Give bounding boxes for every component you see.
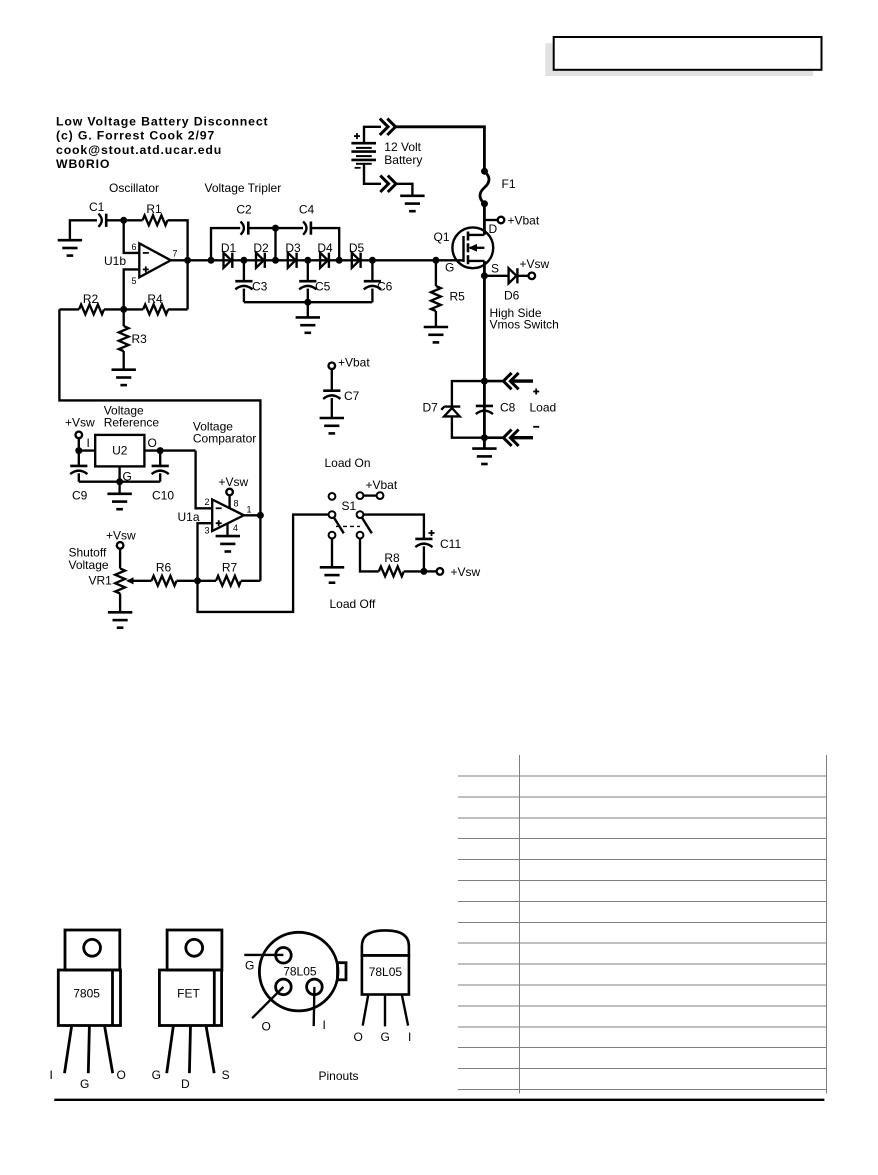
svg-text:G: G [152, 1068, 161, 1082]
svg-text:R8: R8 [384, 551, 400, 565]
connector load plus [484, 373, 539, 395]
svg-text:+Vsw: +Vsw [65, 416, 95, 430]
wire battery minus to connector [364, 164, 381, 184]
svg-text:+Vsw: +Vsw [219, 475, 249, 489]
wire R3 to ground [123, 351, 125, 369]
capacitor C3 [235, 260, 267, 302]
wire D6 to terminal [518, 275, 528, 277]
ground (U1a) [216, 536, 240, 551]
svg-text:5: 5 [131, 276, 136, 286]
node D3/C5 [304, 257, 311, 264]
wire R1 right then down to output node [168, 220, 188, 261]
bottom rule [54, 1099, 824, 1101]
wire G to ground [118, 482, 120, 494]
connector load minus [484, 427, 539, 446]
svg-text:R3: R3 [132, 332, 148, 346]
svg-text:2: 2 [204, 497, 209, 507]
wire R6 to node [177, 580, 198, 582]
package FET TO-220 [159, 930, 222, 1073]
ground (R5) [424, 327, 448, 342]
transistor Q1 VMOS [434, 222, 500, 276]
resistor R4 [143, 305, 168, 315]
node source [481, 272, 488, 279]
wire to D7 [452, 381, 485, 407]
svg-text:I: I [408, 1030, 411, 1044]
resistor R7 [216, 576, 241, 586]
wire terminal to node [78, 438, 80, 451]
svg-text:G: G [245, 959, 254, 973]
svg-text:C10: C10 [152, 489, 174, 503]
ground (tripler) [296, 317, 320, 332]
node D2/C2 [272, 257, 279, 264]
wire source to D6 [484, 275, 508, 277]
ground (U2) [107, 494, 131, 509]
svg-text:D6: D6 [504, 289, 520, 303]
switch S1 [329, 492, 384, 538]
svg-text:C6: C6 [377, 280, 393, 294]
wire S1 pole to C11 [363, 515, 424, 539]
svg-text:6: 6 [131, 242, 136, 252]
connector battery plus chevrons [380, 119, 388, 135]
svg-text:C9: C9 [72, 489, 88, 503]
svg-text:4: 4 [233, 523, 238, 533]
svg-text:D4: D4 [317, 241, 333, 255]
svg-text:D: D [489, 222, 498, 236]
wire node to pin6 [124, 220, 140, 253]
fuse F1 [480, 168, 516, 208]
svg-text:Pinouts: Pinouts [319, 1069, 359, 1083]
svg-text:12 Volt: 12 Volt [384, 140, 421, 154]
svg-text:C3: C3 [252, 280, 268, 294]
node tripler branch [208, 257, 215, 264]
capacitor C10 [152, 451, 175, 503]
node C1/R1/pin6 [120, 217, 127, 224]
resistor R6 [152, 576, 177, 586]
wire R2 to node [104, 308, 124, 310]
svg-text:78L05: 78L05 [369, 965, 403, 979]
wire pin5 from R2 node [124, 269, 140, 309]
svg-text:I: I [323, 1018, 326, 1032]
wire node to R3 [123, 309, 125, 326]
svg-text:R5: R5 [450, 290, 466, 304]
svg-text:Low Voltage Battery Disconnect: Low Voltage Battery Disconnect [56, 115, 269, 129]
svg-text:Load: Load [530, 401, 557, 415]
node U2 input [75, 447, 82, 454]
title box shadow [545, 43, 813, 76]
wire feedback R2 to U1a output [59, 309, 260, 515]
wire U2 out to comparator pin2 [144, 451, 212, 509]
diode D1 [224, 253, 233, 268]
ground (R3) [112, 370, 136, 385]
wire R7 to output vertical [241, 580, 260, 582]
package 78L05 TO-92 front view [362, 930, 409, 1026]
svg-text:D3: D3 [285, 241, 301, 255]
svg-text:7805: 7805 [73, 987, 100, 1001]
node G [116, 478, 123, 485]
wire S1 lower left to ground [331, 539, 333, 567]
wire F1 to drain [483, 204, 486, 235]
svg-text:S: S [491, 262, 499, 276]
op-amp U1b [104, 242, 178, 286]
op-amp U1a [178, 497, 252, 536]
wire node to C4 [276, 227, 304, 229]
terminal +Vsw (source) [529, 273, 536, 280]
svg-text:WB0RIO: WB0RIO [56, 157, 110, 171]
svg-text:O: O [148, 436, 157, 450]
svg-text:O: O [354, 1030, 363, 1044]
node D1/C3 [240, 257, 247, 264]
wire left vertical from R2 [59, 308, 79, 310]
svg-text:D: D [181, 1077, 190, 1091]
connector battery minus chevrons [380, 176, 388, 192]
wire pin3 vertical and loop to switch [198, 515, 329, 612]
svg-text:C4: C4 [299, 203, 315, 217]
wire connector to ground [396, 184, 412, 196]
svg-text:O: O [262, 1020, 271, 1034]
svg-text:I: I [87, 436, 90, 450]
wire tripler bottom bus [244, 301, 373, 303]
svg-text:R1: R1 [146, 202, 162, 216]
svg-text:+Vbat: +Vbat [508, 214, 540, 228]
node R8/C11 [420, 568, 427, 575]
wire battery plus to connector [364, 127, 381, 143]
wire bus to ground [307, 302, 309, 317]
package 78L05 TO-92 bottom view [259, 932, 346, 1011]
wire source down to load [483, 261, 486, 448]
package 7805 TO-220 [58, 930, 120, 1073]
wire U2 G pin [118, 466, 120, 481]
title text block [56, 115, 269, 172]
svg-text:3: 3 [204, 526, 209, 536]
ground (C1) [58, 240, 82, 255]
node load bottom [481, 434, 488, 441]
svg-text:FET: FET [177, 987, 200, 1001]
svg-text:I: I [50, 1068, 53, 1082]
svg-text:C7: C7 [344, 389, 360, 403]
svg-text:R4: R4 [147, 292, 163, 306]
svg-text:7: 7 [173, 249, 178, 259]
node load top [481, 378, 488, 385]
wire U1b output main bus to gate [171, 259, 464, 261]
svg-text:Load Off: Load Off [330, 597, 376, 611]
wire C1 left to ground [70, 220, 97, 240]
svg-text:Reference: Reference [104, 416, 160, 430]
capacitor C4 [303, 222, 311, 235]
svg-text:+Vsw: +Vsw [106, 529, 136, 543]
node U1a output [257, 512, 264, 519]
diode D2 [256, 253, 265, 268]
wire C2 to node [249, 227, 275, 229]
wire D7 to bottom [452, 416, 485, 437]
wire R1R4 vertical [186, 260, 188, 309]
svg-text:U2: U2 [112, 444, 128, 458]
svg-text:G: G [381, 1030, 390, 1044]
svg-text:S: S [222, 1068, 230, 1082]
svg-text:C11: C11 [440, 537, 461, 551]
svg-text:C1: C1 [89, 200, 105, 214]
wire up to C2 [211, 228, 240, 260]
terminal +Vbat at drain [484, 219, 497, 221]
terminal +Vbat (C7) [329, 363, 336, 370]
svg-text:Voltage Tripler: Voltage Tripler [205, 181, 282, 195]
capacitor C6 [364, 260, 393, 302]
node output/R1/R4 [184, 257, 191, 264]
svg-text:1: 1 [247, 505, 252, 515]
wire U1a output [244, 514, 261, 516]
wire output down to R7 [259, 515, 261, 581]
wire node to R7 [198, 580, 217, 582]
svg-text:(c) G. Forrest Cook 2/97: (c) G. Forrest Cook 2/97 [56, 129, 215, 143]
node bus ground [304, 299, 311, 306]
svg-text:G: G [445, 261, 454, 275]
node U2 output [157, 447, 164, 454]
capacitor C11 [415, 530, 461, 571]
svg-text:D5: D5 [349, 241, 365, 255]
svg-text:cook@stout.atd.ucar.edu: cook@stout.atd.ucar.edu [56, 143, 222, 157]
capacitor C8 [476, 401, 516, 415]
wire R4 to vertical [168, 308, 188, 310]
svg-text:O: O [117, 1068, 126, 1082]
wire VR1 to ground [119, 594, 121, 612]
battery B1 12V [351, 133, 376, 168]
svg-text:+Vsw: +Vsw [451, 565, 481, 579]
node R2/R3/R4/pin5 [120, 306, 127, 313]
ground (S1) [320, 567, 344, 582]
svg-text:S1: S1 [342, 499, 357, 513]
ground (battery) [400, 196, 424, 211]
title box [554, 37, 822, 70]
resistor R3 [119, 326, 129, 351]
wire node to terminal [424, 570, 437, 572]
regulator U2 [87, 435, 157, 484]
wire S1 lower right to R8 [360, 539, 379, 572]
svg-text:F1: F1 [502, 177, 516, 191]
wire node to R4 [124, 308, 143, 310]
diode D6 [509, 268, 518, 283]
svg-text:D7: D7 [423, 401, 439, 415]
capacitor C1 [98, 214, 106, 227]
svg-text:R6: R6 [156, 561, 172, 575]
node gate [432, 257, 439, 264]
svg-text:Comparator: Comparator [193, 432, 256, 446]
capacitor C9 [70, 451, 87, 503]
svg-text:U1b: U1b [104, 254, 126, 268]
svg-text:+Vsw: +Vsw [520, 257, 550, 271]
diode D5 [352, 253, 361, 268]
resistor R2 [79, 305, 104, 315]
svg-text:C5: C5 [315, 280, 331, 294]
wire node to R1 [124, 219, 143, 221]
svg-text:+Vbat: +Vbat [338, 356, 370, 370]
svg-text:78L05: 78L05 [283, 965, 317, 979]
capacitor C5 [299, 260, 330, 302]
svg-text:Oscillator: Oscillator [109, 181, 159, 195]
svg-text:Battery: Battery [384, 153, 422, 167]
wire C1 to node [107, 219, 123, 221]
wire terminal to pin8 [228, 495, 230, 508]
svg-text:8: 8 [234, 499, 239, 509]
svg-text:D1: D1 [221, 241, 237, 255]
capacitor C2 [241, 222, 249, 235]
svg-text:Q1: Q1 [434, 230, 450, 244]
parts list table [458, 755, 827, 1094]
svg-text:R7: R7 [222, 561, 238, 575]
ground (load) [472, 449, 496, 464]
potentiometer VR1 [89, 569, 152, 594]
svg-text:R2: R2 [83, 292, 99, 306]
capacitor C7 [323, 369, 359, 418]
wire node down to bus [274, 228, 276, 260]
resistor R1 [143, 215, 168, 225]
wire connector to F1 corner [396, 127, 485, 172]
svg-text:Voltage: Voltage [69, 558, 109, 572]
svg-text:+Vbat: +Vbat [366, 478, 398, 492]
svg-text:VR1: VR1 [89, 574, 113, 588]
node top branch [272, 225, 279, 232]
svg-text:C2: C2 [236, 203, 252, 217]
resistor R8 [379, 567, 404, 577]
node D4/C4 [336, 257, 343, 264]
svg-text:C8: C8 [500, 401, 516, 415]
wire reference bottom bus [79, 481, 160, 483]
svg-text:G: G [80, 1077, 89, 1091]
wire C4 down to bus [312, 228, 339, 260]
wire R8 to node [404, 570, 424, 572]
svg-text:Load On: Load On [325, 456, 371, 470]
ground (VR1) [108, 612, 132, 627]
svg-text:D2: D2 [253, 241, 269, 255]
svg-text:U1a: U1a [178, 510, 200, 524]
diode D4 [320, 253, 329, 268]
wire terminal to VR1 [119, 549, 121, 569]
svg-text:Vmos Switch: Vmos Switch [490, 318, 559, 332]
ground (C7) [320, 418, 344, 433]
diode D7 [423, 401, 461, 417]
diode D3 [288, 253, 297, 268]
resistor R5 [431, 260, 465, 326]
node R6/R7/pin3 [194, 577, 201, 584]
wire node to U2 [79, 449, 95, 451]
terminal +Vsw (R8) [437, 568, 444, 575]
wire pin4 stub [226, 524, 228, 536]
node D5/C6 [369, 257, 376, 264]
